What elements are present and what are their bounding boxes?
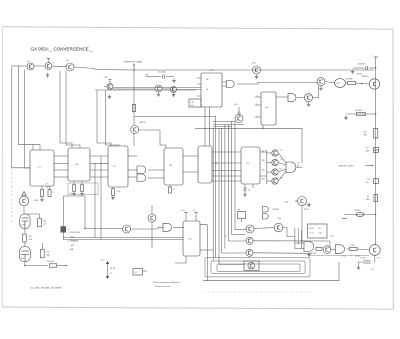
transistor T5 xyxy=(155,85,162,96)
label SORTIE THT LIGNE xyxy=(124,61,143,63)
svg-text:R4 390k: R4 390k xyxy=(355,210,361,212)
pins row 3 xyxy=(54,169,137,171)
transistor T7 xyxy=(317,78,325,86)
wire xyxy=(276,96,288,98)
U1 to G1 wires xyxy=(222,82,226,86)
svg-text:SORTIE THT LIGNE: SORTIE THT LIGNE xyxy=(124,61,143,63)
border frame left edge xyxy=(1,27,3,307)
wire xyxy=(24,229,26,234)
row to circle 3 xyxy=(222,252,246,254)
svg-text:C16: C16 xyxy=(319,233,322,235)
svg-text:+15V: +15V xyxy=(104,77,109,79)
gate G8 xyxy=(163,223,172,231)
svg-text:+15V: +15V xyxy=(234,104,239,106)
IC 2d pins right xyxy=(183,156,198,172)
svg-text:C6 1µF: C6 1µF xyxy=(361,258,366,260)
circle column Qa xyxy=(272,150,278,156)
resistor R50 xyxy=(356,110,366,116)
wire xyxy=(241,219,243,223)
svg-text:47k: 47k xyxy=(366,182,369,184)
resistor R53 on rail xyxy=(366,195,378,202)
svg-text:à L’OSCILLOGR.: à L’OSCILLOGR. xyxy=(69,232,81,234)
circle column Qb xyxy=(272,159,278,165)
svg-text:4 3a: 4 3a xyxy=(75,164,79,166)
svg-text:390k: 390k xyxy=(366,199,370,201)
label VERS PL VIDEO xyxy=(339,165,354,167)
bundle v1 xyxy=(212,128,214,260)
svg-text:+ 2V: + 2V xyxy=(371,269,375,271)
wire xyxy=(74,67,95,69)
svg-text:D7a: D7a xyxy=(265,107,268,109)
svg-text:+1,5V: +1,5V xyxy=(181,210,185,212)
D7a pins left xyxy=(255,97,261,117)
small box 4,7 xyxy=(133,269,147,276)
IC 2e pins right xyxy=(212,152,241,181)
ground T14 xyxy=(307,203,311,207)
svg-text:C2: C2 xyxy=(53,192,55,194)
transistor T6 xyxy=(171,87,177,97)
svg-text:C32 33µF: C32 33µF xyxy=(158,71,165,73)
svg-text:T19: T19 xyxy=(280,177,283,179)
label +2V xyxy=(371,269,375,271)
wire G1 out xyxy=(237,82,317,84)
stub end R4 xyxy=(342,218,347,220)
svg-text:PRévoir composante au diagr: PRévoir composante au diagramme xyxy=(153,281,180,284)
chain circle B xyxy=(323,246,331,254)
caption center line2 xyxy=(153,286,171,288)
wire R50 line xyxy=(346,113,376,115)
capacitor C33 xyxy=(353,64,376,71)
ground R50 xyxy=(344,116,348,120)
svg-text:C4: C4 xyxy=(248,190,250,192)
transistor T7a xyxy=(252,63,261,75)
chain gate C xyxy=(335,245,344,254)
ground C33 xyxy=(351,70,355,74)
label pin numbers D7a xyxy=(257,95,258,117)
svg-text:+ 4,5V: + 4,5V xyxy=(329,236,335,238)
svg-text:+15: +15 xyxy=(193,210,196,212)
svg-text:1/2: 1/2 xyxy=(297,163,299,165)
svg-text:4,7: 4,7 xyxy=(46,184,48,186)
svg-text:R3: R3 xyxy=(367,196,369,198)
resistor R12 xyxy=(47,260,57,267)
IC box 2a xyxy=(30,150,54,186)
IC box 2f xyxy=(241,147,260,184)
gate G2 xyxy=(137,166,146,174)
gate G4 xyxy=(288,94,296,102)
transistor T10R xyxy=(369,245,380,260)
transistor T14 xyxy=(284,197,307,206)
resistor R10 xyxy=(23,234,33,242)
transistor T9 power xyxy=(369,79,379,89)
bundle v8 xyxy=(234,121,236,230)
transistor T2 xyxy=(45,62,54,69)
labels circle column right xyxy=(280,150,283,180)
label BU126 xyxy=(357,73,369,78)
wire D3 out xyxy=(253,252,311,255)
svg-text:– BT2 –: – BT2 – xyxy=(70,245,76,247)
svg-text:THT: THT xyxy=(337,83,340,85)
rail top + xyxy=(371,55,379,59)
IC box D7a xyxy=(261,92,276,125)
diode D8 on rail xyxy=(366,179,379,185)
gate G3 xyxy=(137,174,146,182)
wire G5 out xyxy=(296,166,302,168)
caption center line1 xyxy=(153,281,180,284)
caption bottom left xyxy=(30,286,62,289)
wire pair f xyxy=(106,90,120,146)
bundle v5 xyxy=(224,124,226,249)
wire xyxy=(359,262,364,265)
parts under 2b xyxy=(68,181,98,196)
bundle v2 xyxy=(215,116,217,257)
IC box 2d xyxy=(164,148,183,185)
wire vertical pair d xyxy=(66,71,80,148)
wire vertical left pair b xyxy=(24,70,30,168)
wire from D7a bottom xyxy=(263,125,302,163)
wire arrow xyxy=(57,265,67,267)
gate G6 xyxy=(262,207,268,213)
wires left of T15 xyxy=(213,122,244,127)
IC box 2e xyxy=(198,146,212,183)
arrow to rail xyxy=(365,165,374,167)
svg-text:B 7,2: B 7,2 xyxy=(101,259,105,261)
ground under T4 xyxy=(108,95,112,99)
svg-text:C23: C23 xyxy=(43,220,46,222)
svg-text:R7 39k: R7 39k xyxy=(311,253,316,255)
svg-text:220k: 220k xyxy=(29,239,33,241)
label R7 xyxy=(311,253,316,255)
29a bottom pin xyxy=(175,256,186,263)
svg-text:C28: C28 xyxy=(46,187,49,189)
wire xyxy=(162,88,171,90)
circle D4 box xyxy=(244,261,259,271)
svg-text:B8: B8 xyxy=(238,209,240,211)
bundle v7 xyxy=(231,121,233,235)
wire bundle c xyxy=(113,88,155,90)
svg-text:GX 955A _ CONVERGENCE _: GX 955A _ CONVERGENCE _ xyxy=(31,46,94,51)
loop wire inner xyxy=(217,264,300,272)
wire xyxy=(313,86,319,98)
wire R4 line xyxy=(344,213,376,215)
rail to T10 xyxy=(375,244,377,246)
svg-text:+1,5V: +1,5V xyxy=(277,218,282,220)
svg-text:T2: T2 xyxy=(53,62,55,64)
wire xyxy=(346,248,349,250)
svg-text:L.A. 1M: L.A. 1M xyxy=(110,267,116,270)
row to circle 1 xyxy=(225,230,247,238)
svg-text:C36: C36 xyxy=(191,102,194,104)
T10 down wire xyxy=(374,255,376,262)
svg-text:2 x: 2 x xyxy=(38,167,41,169)
svg-text:D8: D8 xyxy=(368,179,370,181)
wire BX1 xyxy=(64,196,86,240)
cluster T15 xyxy=(234,104,244,123)
cap cluster under 2a b xyxy=(48,186,55,197)
29a supply labels xyxy=(181,210,196,212)
svg-text:→ +23V: → +23V xyxy=(32,200,39,202)
transistor T1 xyxy=(27,61,34,70)
transistor T13 xyxy=(305,94,313,102)
wire bundle b xyxy=(95,89,196,91)
gate G5 xyxy=(286,162,296,173)
svg-text:D9: D9 xyxy=(367,148,369,150)
right rail xyxy=(375,57,377,245)
chain resistor 2 xyxy=(350,245,358,250)
label 4,5V xyxy=(329,236,335,238)
resistor R51 on rail xyxy=(364,129,378,139)
resistor R47 xyxy=(346,79,356,85)
29a out wires xyxy=(200,225,213,281)
wire vertical pair c xyxy=(60,71,72,148)
loop wire outer xyxy=(205,258,310,277)
legend text block xyxy=(68,232,81,251)
circle column Qd xyxy=(272,178,278,184)
wire xyxy=(34,65,45,67)
svg-text:T3a: T3a xyxy=(66,60,69,62)
transistor T3 xyxy=(66,60,74,71)
column out wires xyxy=(278,153,286,181)
svg-text:+ 1 7V: + 1 7V xyxy=(209,70,213,72)
svg-text:C9 1n: C9 1n xyxy=(117,191,121,193)
circle D5 xyxy=(274,223,283,232)
svg-text:1 µF: 1 µF xyxy=(43,224,46,226)
row to circle 2 xyxy=(228,235,246,241)
wire bundle a xyxy=(113,87,201,89)
svg-text:R51: R51 xyxy=(364,132,367,134)
svg-text:+T: +T xyxy=(68,229,70,231)
wires to T11 xyxy=(85,196,123,229)
svg-text:MR D4: MR D4 xyxy=(357,73,362,75)
svg-text:D5: D5 xyxy=(319,228,321,230)
gate outputs xyxy=(148,170,164,178)
arrow symbol B72 xyxy=(101,259,112,279)
IC box 2b xyxy=(68,148,90,181)
wire xyxy=(23,206,25,214)
small box B2 xyxy=(189,99,201,107)
svg-text:180V: 180V xyxy=(366,151,371,153)
label LA1M xyxy=(110,267,116,270)
bottom wire left xyxy=(25,262,48,266)
striped box BX1 xyxy=(61,227,70,233)
wire xyxy=(177,89,202,91)
title GX 955A CONVERGENCE xyxy=(31,46,94,51)
wire D2 out xyxy=(253,241,330,249)
wire xyxy=(173,226,184,228)
gate G1 xyxy=(227,81,235,88)
wire pair e xyxy=(97,90,111,146)
svg-text:4,7: 4,7 xyxy=(135,272,137,274)
svg-text:C5 1n: C5 1n xyxy=(310,233,314,235)
svg-text:R27 1k: R27 1k xyxy=(304,209,309,211)
ground chain xyxy=(357,265,361,269)
svg-text:C33 68µF: C33 68µF xyxy=(358,64,365,66)
svg-text:T17: T17 xyxy=(280,159,283,161)
label half B3 xyxy=(297,163,299,168)
left rail xyxy=(11,66,13,222)
chain gate A xyxy=(304,242,314,257)
border frame top edge xyxy=(2,27,393,30)
29a supply stubs xyxy=(184,213,197,222)
border frame bottom edge xyxy=(2,307,393,309)
chain input xyxy=(295,243,304,249)
column feed rail xyxy=(267,150,272,184)
row to circle 4 xyxy=(219,263,244,265)
wire xyxy=(357,249,369,250)
ground C32 xyxy=(172,79,176,83)
IC box 2c xyxy=(108,146,128,187)
svg-text:VERS PL. VIDEO: VERS PL. VIDEO xyxy=(339,165,354,167)
tube TU1 xyxy=(20,214,30,229)
label R18 xyxy=(140,122,146,124)
label 17V xyxy=(209,70,213,72)
long return wire xyxy=(203,262,339,281)
bundle v6 xyxy=(227,124,229,241)
label R27 xyxy=(304,209,309,211)
tube TU2 xyxy=(19,247,30,262)
label +23V xyxy=(145,75,150,77)
svg-text:T1a: T1a xyxy=(27,61,30,63)
svg-text:7µs: 7µs xyxy=(225,235,228,237)
label C16b xyxy=(342,255,346,258)
connector THT oval xyxy=(335,79,346,88)
svg-text:2b: 2b xyxy=(206,89,208,91)
circle D3 xyxy=(246,249,253,256)
svg-text:28a: 28a xyxy=(169,165,172,167)
circle D2 xyxy=(246,237,253,244)
ground T7a xyxy=(255,75,259,79)
resistor R17 on THT line xyxy=(132,105,135,112)
parts under 2f xyxy=(243,184,253,196)
svg-text:R12 220Ω: R12 220Ω xyxy=(47,260,55,263)
capacitor C32 xyxy=(146,71,174,78)
ground T7 xyxy=(319,86,323,90)
svg-text:R32: R32 xyxy=(262,179,265,181)
circle D1 xyxy=(246,225,254,233)
wire v2 xyxy=(95,156,101,240)
svg-text:V: V xyxy=(377,57,378,59)
long wire y237 xyxy=(63,237,184,239)
cap C6 xyxy=(355,255,371,263)
svg-text:390k: 390k xyxy=(364,135,368,137)
svg-text:T18: T18 xyxy=(280,168,283,170)
svg-text:R18 4,7k: R18 4,7k xyxy=(140,122,146,124)
svg-text:R11: R11 xyxy=(47,251,50,253)
wire xyxy=(131,227,163,229)
transistor T11 xyxy=(123,225,131,233)
parts under 2c xyxy=(111,187,120,200)
ground T13 xyxy=(307,102,311,106)
wire vertical left pair a xyxy=(19,66,40,150)
svg-text:RVB :: RVB : xyxy=(70,249,75,251)
svg-text:(C) L.2568 _ HO.DAVE _ ALISTE: (C) L.2568 _ HO.DAVE _ ALISTE 869 xyxy=(30,286,62,289)
wire y255 xyxy=(310,255,369,257)
chain resistor xyxy=(316,247,322,250)
svg-text:R47 180k: R47 180k xyxy=(346,79,353,81)
long wire y239 xyxy=(63,239,184,241)
wire dashed lower xyxy=(203,291,312,293)
long wire y116 xyxy=(135,115,216,117)
box K xyxy=(308,224,328,238)
labels circle column xyxy=(262,151,265,181)
transistor T10L xyxy=(19,192,29,206)
loop wire middle xyxy=(211,261,305,273)
pins row 4 xyxy=(54,176,137,178)
svg-text:D6: D6 xyxy=(206,79,208,81)
IC U1 box xyxy=(201,73,222,107)
diode D9 on rail xyxy=(366,148,379,153)
ground under T2 xyxy=(46,73,50,77)
resistor R4 xyxy=(355,210,365,216)
svg-text:+23V: +23V xyxy=(252,63,257,65)
IC box 29a xyxy=(183,221,200,256)
svg-text:680k: 680k xyxy=(47,255,51,257)
svg-text:R30: R30 xyxy=(262,160,265,162)
U1 pins left xyxy=(197,78,201,96)
svg-text:29a: 29a xyxy=(189,239,193,241)
capacitor C23 xyxy=(25,214,46,227)
svg-text:R50 390: R50 390 xyxy=(356,110,362,112)
wire xyxy=(52,65,66,68)
svg-text:2T08: 2T08 xyxy=(22,225,25,227)
cap above T15 xyxy=(238,107,240,116)
wire through T12 xyxy=(151,205,153,248)
wire xyxy=(325,82,335,83)
svg-text:T16: T16 xyxy=(280,150,283,152)
wire xyxy=(331,248,336,250)
label +23V arrow xyxy=(32,200,39,202)
svg-text:10n: 10n xyxy=(191,105,194,107)
svg-text:B3: B3 xyxy=(297,166,299,168)
svg-text:2 9: 2 9 xyxy=(113,166,117,168)
label R28 xyxy=(273,209,279,211)
svg-text:R10: R10 xyxy=(29,236,32,238)
wire xyxy=(104,86,107,88)
box K feeds xyxy=(295,228,302,249)
svg-text:C² 4µ7: C² 4µ7 xyxy=(342,255,346,258)
node wire from THT xyxy=(133,133,135,146)
long wire y128 xyxy=(195,127,263,129)
supply +23V T2 xyxy=(46,57,50,63)
svg-text:R28 180: R28 180 xyxy=(273,209,279,211)
bundle v4 xyxy=(221,128,223,253)
svg-text:T10: T10 xyxy=(377,258,380,260)
border frame right edge xyxy=(392,29,394,309)
circle column Qc xyxy=(272,169,278,175)
wire xyxy=(24,242,26,247)
resistor R11 xyxy=(40,243,50,258)
pins row 2 xyxy=(12,163,108,168)
svg-text:L: LUMINANCE: L: LUMINANCE xyxy=(68,240,79,243)
wire arrow to T9 xyxy=(356,83,370,85)
svg-text:R31: R31 xyxy=(262,170,265,172)
svg-text:C4 180: C4 180 xyxy=(350,245,355,247)
svg-text:R6 1k: R6 1k xyxy=(310,228,314,230)
long wire top xyxy=(95,69,374,72)
svg-text:_ BT de la conv. hélic.: _ BT de la conv. hélic. xyxy=(153,286,171,288)
svg-text:8 1: 8 1 xyxy=(247,163,250,165)
wire xyxy=(297,97,305,99)
pins row 1 xyxy=(54,155,137,157)
wire xyxy=(283,228,295,237)
gate G7 xyxy=(262,214,268,220)
svg-text:2k2: 2k2 xyxy=(262,151,264,153)
wire xyxy=(12,65,27,67)
node THT line xyxy=(133,64,135,126)
svg-text:2T08: 2T08 xyxy=(21,258,24,260)
svg-text:R48 BU1: R48 BU1 xyxy=(362,76,369,78)
bundle v3 xyxy=(218,128,220,264)
